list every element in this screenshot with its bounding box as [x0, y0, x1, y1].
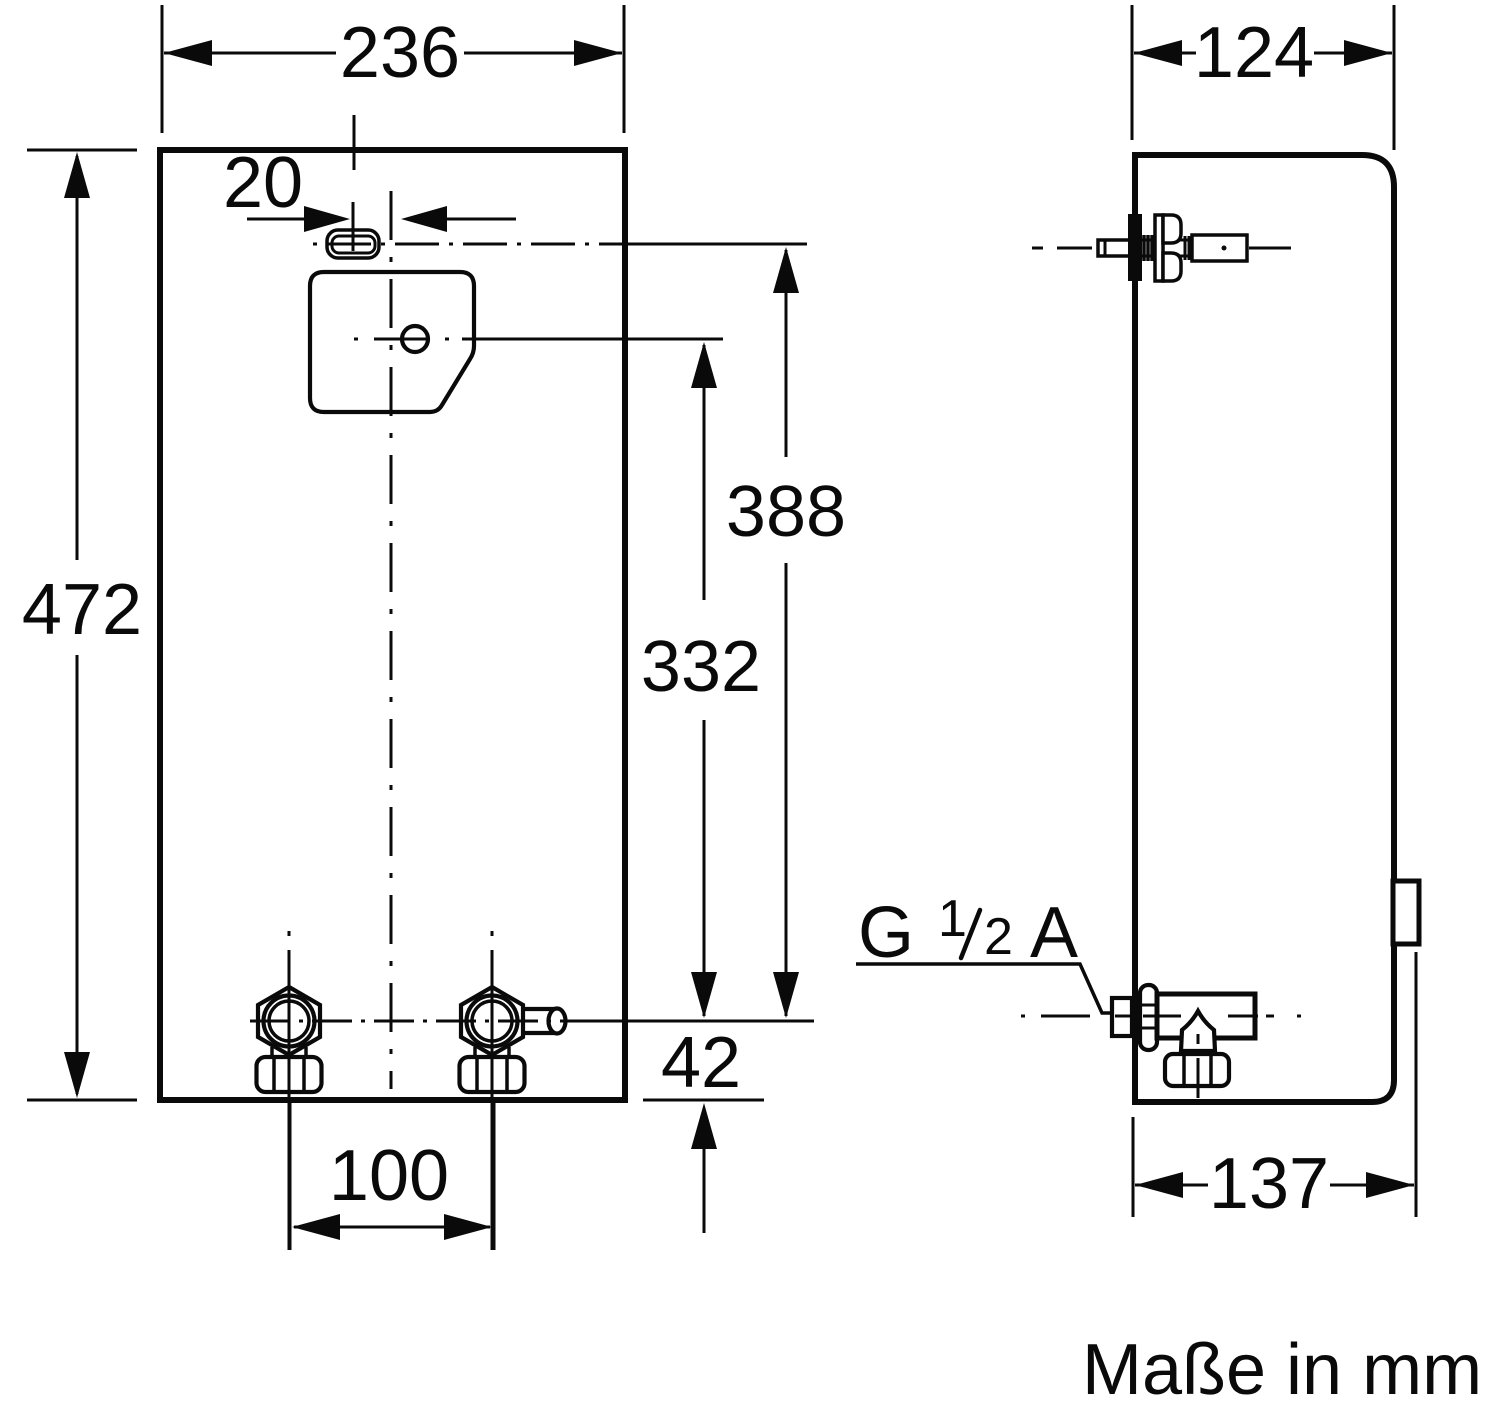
- svg-text:236: 236: [340, 13, 460, 93]
- svg-text:137: 137: [1209, 1144, 1329, 1224]
- svg-text:42: 42: [661, 1023, 741, 1103]
- svg-text:G: G: [858, 893, 914, 973]
- svg-text:472: 472: [22, 570, 142, 650]
- svg-text:332: 332: [641, 627, 761, 707]
- svg-text:2: 2: [984, 908, 1013, 966]
- svg-text:124: 124: [1194, 13, 1314, 93]
- svg-text:1: 1: [938, 890, 967, 948]
- svg-text:20: 20: [223, 143, 303, 223]
- svg-text:Maße in mm: Maße in mm: [1082, 1330, 1482, 1406]
- svg-text:100: 100: [329, 1136, 449, 1216]
- svg-text:A: A: [1030, 893, 1078, 973]
- svg-text:388: 388: [726, 472, 846, 552]
